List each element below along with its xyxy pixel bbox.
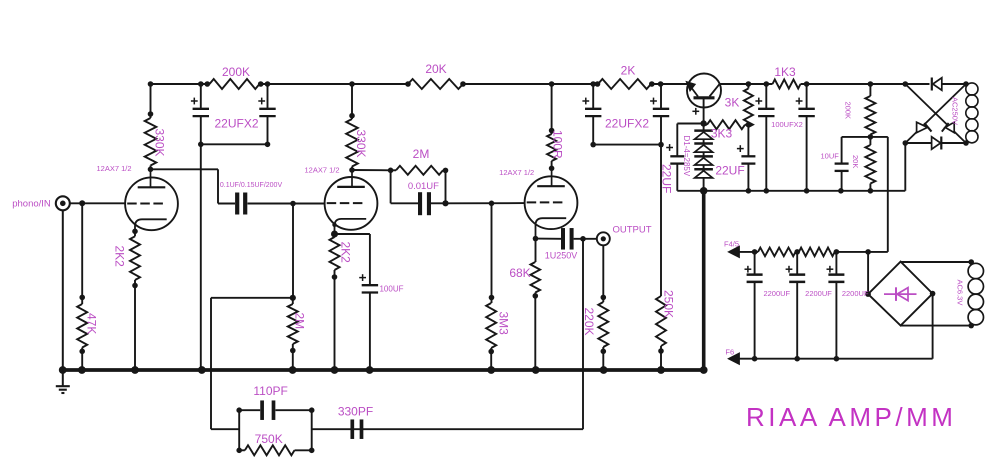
svg-text:F4/5: F4/5 [724,240,739,249]
svg-text:AC6.3V: AC6.3V [956,280,965,306]
svg-text:AC250V: AC250V [951,97,960,125]
svg-text:1K3: 1K3 [774,65,796,79]
svg-text:0.1UF/0.15UF/200V: 0.1UF/0.15UF/200V [220,182,283,189]
svg-text:12AX7 1/2: 12AX7 1/2 [304,166,339,175]
svg-text:OUTPUT: OUTPUT [612,225,651,236]
svg-text:1U250V: 1U250V [545,251,578,261]
svg-text:2M: 2M [413,147,430,161]
svg-text:20K: 20K [851,155,860,168]
svg-text:12AX7 1/2: 12AX7 1/2 [96,164,131,173]
svg-text:2K2: 2K2 [339,242,353,264]
svg-text:47K: 47K [85,313,99,334]
svg-text:330K: 330K [153,129,167,157]
svg-text:200K: 200K [844,102,853,120]
svg-text:68K: 68K [509,266,530,280]
svg-text:2200UF: 2200UF [842,289,869,298]
svg-text:20K: 20K [425,62,446,76]
svg-text:F6: F6 [725,348,734,357]
svg-text:22UF: 22UF [715,164,744,178]
svg-text:200K: 200K [222,65,250,79]
svg-text:2K: 2K [621,64,636,78]
svg-text:RIAA AMP/MM: RIAA AMP/MM [746,402,956,432]
svg-text:750K: 750K [255,432,283,446]
svg-text:3K3: 3K3 [711,127,733,141]
svg-text:22UF: 22UF [660,164,674,193]
svg-text:110PF: 110PF [253,384,287,398]
svg-text:D1-4=285V: D1-4=285V [682,136,691,177]
svg-text:250K: 250K [662,290,676,318]
svg-text:330K: 330K [354,130,368,158]
svg-text:100UF: 100UF [379,285,403,294]
svg-text:3K: 3K [725,96,740,110]
svg-text:3M3: 3M3 [497,312,511,336]
svg-text:2K2: 2K2 [113,246,127,268]
svg-text:330PF: 330PF [338,405,373,419]
svg-text:0.01UF: 0.01UF [408,181,439,192]
svg-text:10UF: 10UF [821,152,840,161]
svg-text:100UFX2: 100UFX2 [771,120,803,129]
svg-text:22UFX2: 22UFX2 [605,117,649,131]
svg-text:2M: 2M [293,313,307,330]
svg-text:100R: 100R [551,130,565,159]
svg-text:2200UF: 2200UF [763,289,790,298]
svg-text:phono/IN: phono/IN [12,199,51,210]
svg-text:22UFX2: 22UFX2 [214,117,258,131]
svg-text:2200UF: 2200UF [805,289,832,298]
svg-text:12AX7 1/2: 12AX7 1/2 [499,168,534,177]
svg-text:220K: 220K [582,308,596,336]
